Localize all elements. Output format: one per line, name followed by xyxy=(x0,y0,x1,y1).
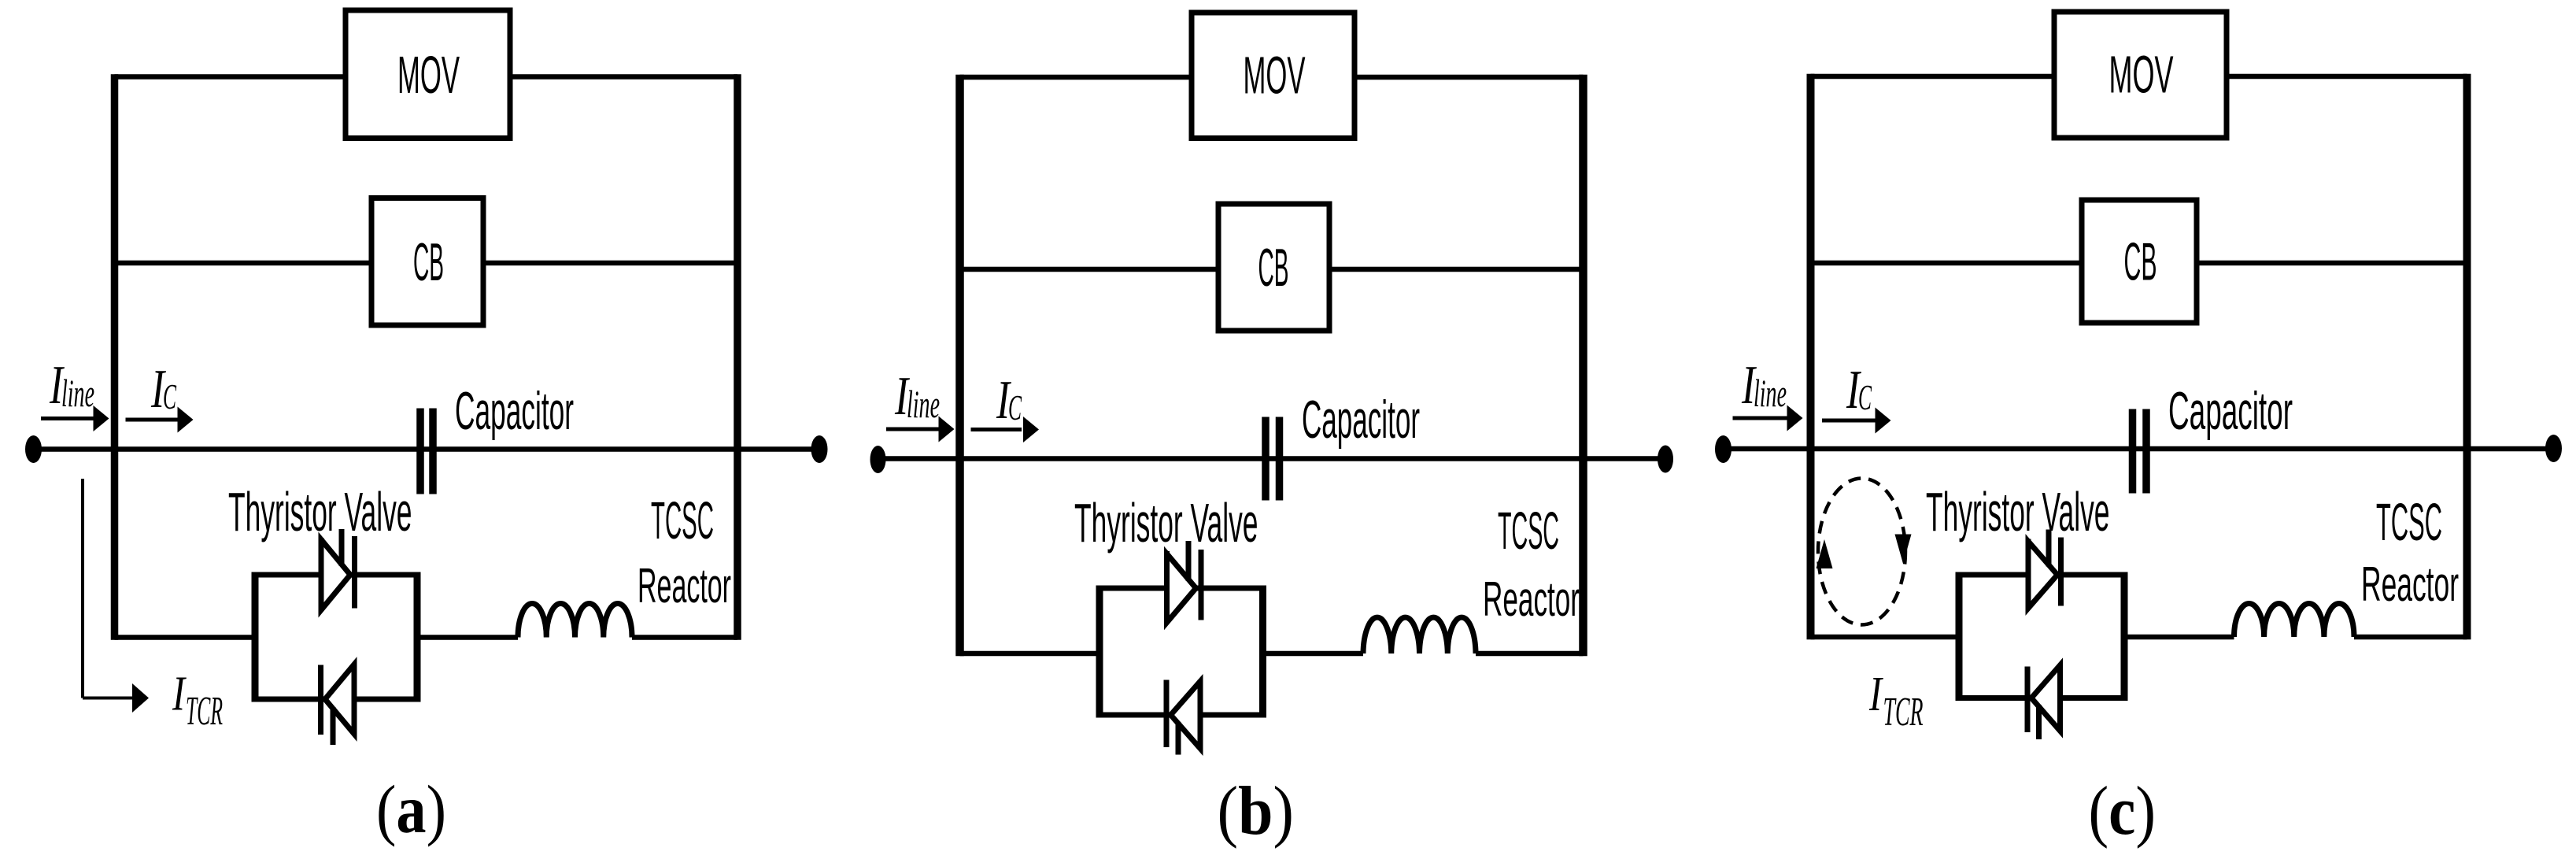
svg-text:TCR: TCR xyxy=(186,689,223,734)
svg-text:(a): (a) xyxy=(376,771,446,847)
svg-text:C: C xyxy=(163,376,177,417)
svg-text:C: C xyxy=(1858,377,1872,417)
svg-text:line: line xyxy=(61,371,94,415)
svg-text:Thyristor Valve: Thyristor Valve xyxy=(228,481,412,542)
svg-text:Thyristor Valve: Thyristor Valve xyxy=(1074,492,1258,554)
svg-text:line: line xyxy=(907,382,940,426)
svg-text:MOV: MOV xyxy=(397,46,460,105)
svg-text:CB: CB xyxy=(2124,232,2157,292)
svg-text:(c): (c) xyxy=(2089,773,2157,850)
svg-text:C: C xyxy=(1008,387,1022,428)
svg-text:Thyristor Valve: Thyristor Valve xyxy=(1926,481,2110,542)
svg-text:TCR: TCR xyxy=(1883,690,1924,735)
svg-text:TCSC: TCSC xyxy=(1498,502,1559,561)
svg-text:TCSC: TCSC xyxy=(2376,493,2442,552)
svg-text:Capacitor: Capacitor xyxy=(455,381,574,441)
svg-text:Reactor: Reactor xyxy=(638,559,731,613)
svg-text:(b): (b) xyxy=(1218,773,1295,850)
svg-text:I: I xyxy=(172,668,187,721)
svg-text:CB: CB xyxy=(1258,238,1289,298)
svg-text:CB: CB xyxy=(413,232,444,292)
svg-text:MOV: MOV xyxy=(2109,46,2174,105)
svg-text:Capacitor: Capacitor xyxy=(2168,381,2293,441)
svg-text:line: line xyxy=(1754,371,1787,415)
svg-text:TCSC: TCSC xyxy=(651,491,714,550)
svg-text:Capacitor: Capacitor xyxy=(1302,390,1420,450)
svg-text:I: I xyxy=(1868,668,1883,721)
svg-text:Reactor: Reactor xyxy=(2361,557,2459,612)
svg-text:Reactor: Reactor xyxy=(1483,572,1580,627)
svg-text:MOV: MOV xyxy=(1244,46,1306,106)
